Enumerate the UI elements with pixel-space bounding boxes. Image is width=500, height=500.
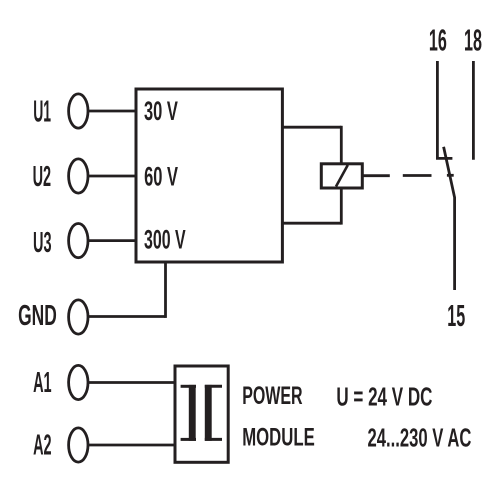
- voltage monitoring box: [136, 89, 282, 262]
- svg-text:15: 15: [447, 300, 465, 334]
- svg-text:24...230 V AC: 24...230 V AC: [368, 423, 472, 453]
- svg-text:16: 16: [429, 24, 447, 58]
- svg-text:U1: U1: [33, 95, 51, 130]
- blade actuator tick: [447, 174, 454, 177]
- svg-text:U = 24 V DC: U = 24 V DC: [336, 382, 432, 412]
- transformer right core bar: [205, 385, 212, 441]
- terminal U2: [69, 159, 88, 193]
- terminal U1: [69, 94, 88, 128]
- wire terminal 16: [436, 61, 439, 158]
- wire vertical to relay coil top: [340, 126, 343, 164]
- contact 16 seat: [436, 157, 452, 160]
- svg-text:A1: A1: [33, 365, 52, 398]
- transformer left core bar: [189, 385, 196, 441]
- transformer icon in power module: [181, 386, 222, 439]
- wire box output top: [282, 126, 341, 129]
- svg-text:30 V: 30 V: [144, 96, 178, 126]
- transformer left top arm: [181, 385, 196, 388]
- svg-text:60 V: 60 V: [144, 161, 178, 191]
- terminal U3: [69, 224, 88, 258]
- svg-text:MODULE: MODULE: [242, 423, 315, 451]
- wire box output bottom: [282, 222, 341, 225]
- transformer left bottom arm: [181, 438, 196, 441]
- terminal A2: [69, 428, 88, 462]
- svg-text:U3: U3: [33, 225, 52, 258]
- svg-text:18: 18: [464, 24, 482, 58]
- wire terminal 18: [472, 61, 475, 160]
- relay coil K1: [321, 164, 362, 188]
- wire A1 to power module: [89, 381, 177, 384]
- terminal GND: [69, 300, 88, 334]
- svg-text:U2: U2: [33, 159, 52, 192]
- wire U3 to box: [89, 239, 138, 242]
- wire GND horizontal: [89, 315, 166, 318]
- switch blade: [444, 147, 455, 290]
- wire GND vertical to box bottom: [164, 262, 167, 318]
- wire U2 to box: [89, 175, 138, 178]
- svg-text:300 V: 300 V: [144, 224, 186, 254]
- relay coil diagonal: [336, 165, 348, 187]
- transformer right bottom arm: [205, 438, 222, 441]
- svg-text:GND: GND: [18, 299, 57, 332]
- terminal A1: [69, 365, 88, 399]
- wire A2 to power module: [89, 444, 177, 447]
- power module box: [175, 366, 228, 462]
- wire relay coil bottom to output: [340, 188, 343, 225]
- svg-text:A2: A2: [33, 428, 52, 461]
- wire relay coil right lead: [362, 174, 390, 177]
- svg-text:POWER: POWER: [242, 382, 302, 409]
- wire U1 to box: [89, 110, 138, 113]
- transformer right top arm: [205, 385, 222, 388]
- dashed actuator link: [403, 174, 432, 177]
